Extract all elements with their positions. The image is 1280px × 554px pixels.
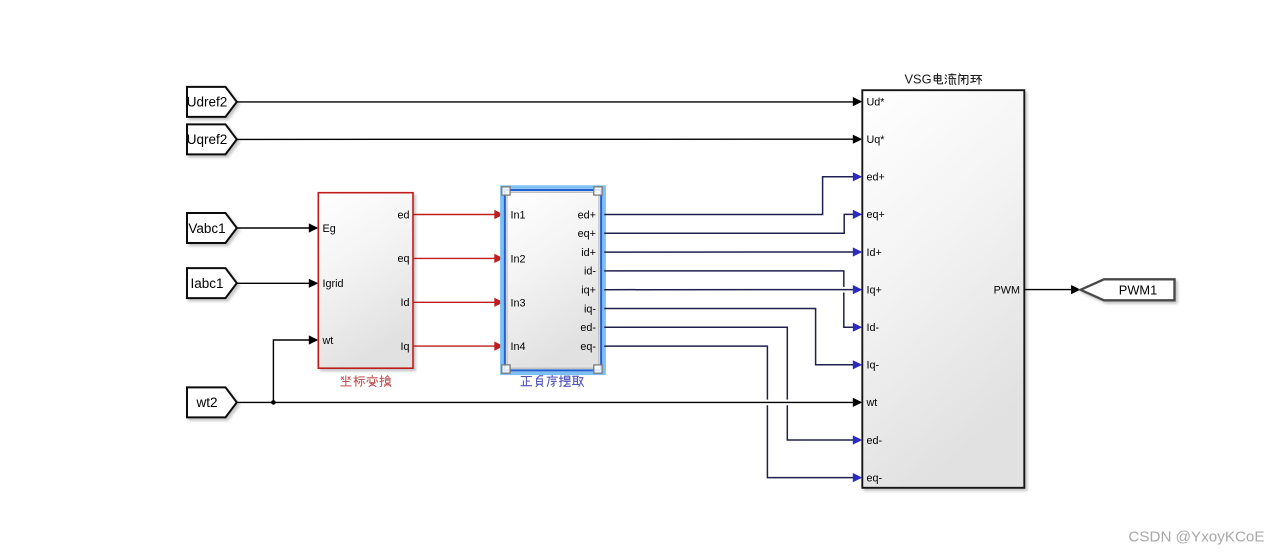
svg-text:In2: In2 [511, 254, 526, 266]
svg-text:VSG: VSG [905, 72, 932, 87]
svg-text:ed+: ed+ [578, 209, 596, 221]
selection handle [502, 365, 510, 373]
wire wt2 to VSG wt [237, 401, 854, 403]
svg-text:ed: ed [397, 209, 409, 221]
wire Udref2 to VSG Ud* [237, 101, 854, 103]
svg-text:In3: In3 [511, 297, 526, 309]
block title: zhengfuxu tiqu (sequence extraction) [521, 375, 583, 386]
subsystem block U2 sequence extraction (selected, zhengfuxu tiqu) [502, 187, 604, 373]
red wire Id to In3 [413, 301, 495, 303]
svg-text:Uqref2: Uqref2 [187, 132, 228, 147]
svg-text:eq+: eq+ [867, 209, 885, 221]
svg-text:eq: eq [397, 253, 409, 265]
input port tag Vabc1 [187, 213, 237, 243]
output port tag PWM1 [1081, 279, 1175, 300]
wire Iabc1 to Igrid [237, 282, 310, 284]
wire id+ to VSG Id+ [604, 251, 853, 253]
selection handle [594, 365, 602, 373]
wire Vabc1 to Eg [237, 227, 310, 229]
red wire eq to In2 [413, 257, 495, 259]
selection handle [502, 187, 510, 195]
svg-text:eq+: eq+ [578, 228, 596, 240]
selection handle [594, 187, 602, 195]
input port tag wt2 [187, 387, 237, 417]
wire ed- to VSG ed- (gap where wt crosses) [604, 327, 787, 399]
subsystem block U1 coordinate transform (zuobiao bianhuan) [318, 193, 413, 369]
wire ed+ to VSG ed+ [604, 177, 853, 215]
svg-text:Id: Id [400, 297, 409, 309]
block title: zuobiao bianhuan (coordinate transform) [341, 375, 391, 386]
wire branch wt2 to coordinate-transform wt [273, 340, 310, 402]
input port tag Udref2 [187, 87, 237, 117]
svg-text:Eg: Eg [323, 223, 336, 235]
svg-text:eq-: eq- [867, 472, 883, 484]
svg-text:Uq*: Uq* [867, 134, 886, 146]
junction dot on wt net [271, 400, 276, 405]
red wire Iq to In4 [413, 345, 495, 347]
svg-text:Iq-: Iq- [867, 360, 880, 372]
svg-text:Id+: Id+ [867, 247, 882, 259]
svg-text:Iq: Iq [400, 341, 409, 353]
svg-text:Id-: Id- [867, 322, 880, 334]
wire Uqref2 to VSG Uq* [237, 138, 854, 140]
subsystem block U3 VSG current loop (VSG dianliu bihuan) [862, 90, 1024, 488]
svg-text:Ud*: Ud* [867, 96, 886, 108]
svg-text:In4: In4 [511, 341, 526, 353]
block title: VSG dianliu bihuan (VSG current loop) [905, 72, 982, 87]
svg-text:In1: In1 [511, 210, 526, 222]
input port tag Uqref2 [187, 124, 237, 154]
svg-text:Iq+: Iq+ [867, 284, 882, 296]
svg-text:Udref2: Udref2 [187, 95, 228, 110]
svg-text:id-: id- [584, 266, 596, 278]
svg-text:ed-: ed- [580, 322, 596, 334]
red wire ed to In1 [413, 214, 495, 216]
svg-text:Iabc1: Iabc1 [190, 276, 223, 291]
wire VSG PWM to PWM1 [1024, 289, 1072, 291]
svg-text:ed+: ed+ [867, 172, 885, 184]
svg-text:wt2: wt2 [195, 395, 217, 410]
wire eq- to VSG eq- (gap where wt crosses) [604, 346, 767, 400]
input port tag Iabc1 [187, 268, 237, 298]
svg-text:iq+: iq+ [581, 285, 596, 297]
svg-text:id+: id+ [581, 247, 596, 259]
wire iq- to VSG Iq- [604, 309, 853, 365]
svg-text:wt: wt [322, 335, 334, 347]
wire iq+ to VSG Iq+ [604, 289, 853, 291]
svg-text:eq-: eq- [580, 341, 596, 353]
svg-text:Vabc1: Vabc1 [188, 221, 225, 236]
svg-text:wt: wt [866, 397, 878, 409]
wire id- to VSG Id- (gap where iq+ crosses) [604, 271, 844, 287]
svg-text:PWM: PWM [994, 284, 1020, 296]
svg-text:PWM1: PWM1 [1119, 282, 1157, 297]
svg-text:ed-: ed- [867, 435, 883, 447]
svg-text:iq-: iq- [584, 303, 596, 315]
svg-text:CSDN @YxoyKCoE: CSDN @YxoyKCoE [1128, 528, 1264, 545]
wire eq+ to VSG eq+ [604, 214, 853, 233]
svg-text:Igrid: Igrid [323, 278, 344, 290]
